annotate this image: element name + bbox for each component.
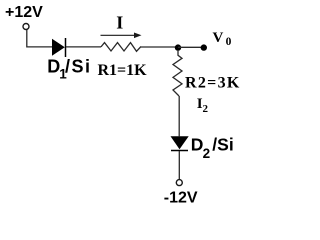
label D2/Si: [191, 134, 234, 161]
svg-text:V: V: [213, 30, 224, 46]
svg-text:-12V: -12V: [164, 190, 198, 207]
wire from R1 to node: [141, 46, 178, 48]
wire from D2 cathode to -12V terminal: [178, 151, 180, 179]
diode D1: [52, 38, 66, 57]
svg-text:I: I: [116, 13, 123, 33]
resistor R2: [173, 50, 182, 96]
svg-text:+12V: +12V: [5, 4, 43, 21]
label D1/Si: [47, 57, 91, 82]
wire from +12V terminal to D1 anode: [27, 30, 52, 47]
+12V terminal: [23, 24, 29, 30]
svg-text:/Si: /Si: [65, 57, 92, 77]
svg-text:D: D: [191, 134, 204, 154]
-12V terminal: [176, 180, 182, 186]
current arrow I: [101, 33, 142, 39]
svg-text:2: 2: [203, 103, 209, 115]
wire from node to V0 terminal: [178, 46, 204, 48]
label I2: [197, 96, 209, 115]
svg-text:2: 2: [203, 146, 211, 161]
svg-text:R2=3K: R2=3K: [185, 75, 241, 92]
svg-text:/Si: /Si: [212, 134, 233, 154]
wire from D1 cathode to R1: [66, 46, 101, 48]
label V0: [213, 30, 232, 48]
svg-text:0: 0: [226, 36, 232, 48]
svg-text:R1=1K: R1=1K: [98, 62, 148, 79]
node junction: [175, 44, 181, 50]
wire from R2 to D2 anode: [178, 96, 180, 136]
resistor R1: [101, 43, 141, 52]
diode D2: [171, 136, 189, 150]
V0 terminal dot: [201, 44, 207, 50]
